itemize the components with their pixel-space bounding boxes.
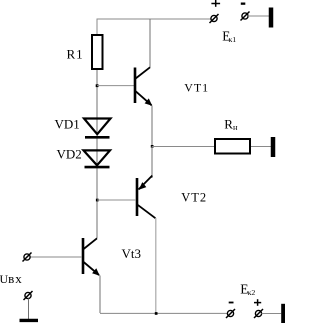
- transistor Vt3: [83, 238, 100, 276]
- wire top rail: [97, 18, 211, 20]
- svg-text:VD2: VD2: [57, 147, 82, 162]
- label minus Ek2: [229, 302, 234, 304]
- terminal input bottom: [24, 291, 33, 300]
- label plus Ek1: [211, 0, 220, 7]
- svg-text:VD1: VD1: [55, 117, 80, 132]
- wire VT2 base: [97, 199, 136, 201]
- wire Rn right: [251, 146, 271, 148]
- wire emitter VT2 vertical: [151, 146, 153, 178]
- svg-text:к1: к1: [229, 35, 237, 44]
- wire R1 top drop: [96, 19, 98, 35]
- wire VT2 collector vertical: [155, 218, 157, 313]
- svg-text:к2: к2: [248, 288, 256, 297]
- wire VT1 base: [97, 85, 134, 87]
- wire Vt3 base: [30, 256, 82, 258]
- wire Vt3 emitter vertical: [99, 276, 101, 314]
- label plus Ek2: [254, 299, 261, 306]
- node junction emitter/Rn: [151, 145, 154, 148]
- wire Ek1 to chassis: [248, 15, 269, 17]
- svg-text:Vt3: Vt3: [122, 246, 142, 261]
- wire Ek2 to chassis: [262, 313, 282, 315]
- resistor Rn: [215, 139, 250, 154]
- svg-text:R1: R1: [67, 47, 84, 62]
- diode VD1: [84, 119, 111, 138]
- transistor VT1: [135, 67, 152, 106]
- node junction VT2 collector/bottom rail: [155, 312, 158, 315]
- wire VT1 collector vertical: [149, 19, 151, 68]
- terminal Ek2 plus: [254, 309, 263, 318]
- svg-text:VT2: VT2: [181, 191, 207, 205]
- diode VD2: [84, 150, 111, 167]
- resistor R1: [92, 35, 103, 69]
- wire to Rn: [152, 146, 214, 148]
- terminal Ek2 minus: [226, 309, 235, 318]
- svg-text:VT1: VT1: [184, 81, 209, 95]
- svg-text:Uвх: Uвх: [0, 271, 23, 286]
- chassis bar Rn: [271, 137, 276, 157]
- ground bar input: [20, 319, 39, 322]
- wire bottom rail: [100, 312, 228, 314]
- transistor VT2: [137, 176, 155, 219]
- label minus Ek1: [241, 3, 246, 5]
- terminal Ek1 plus: [210, 14, 219, 23]
- chassis bar Ek2: [281, 304, 285, 323]
- node junction VD2/VT2 base: [96, 199, 99, 202]
- terminal Ek1 minus: [241, 12, 250, 21]
- wire input ground: [28, 299, 30, 320]
- node junction R1/base: [96, 84, 99, 87]
- terminal input top: [23, 253, 32, 262]
- wire vertical R1 bottom through VD1/VD2 to Vt3 collector: [96, 70, 98, 238]
- wire VT1 emitter vertical: [151, 106, 153, 147]
- chassis bar Ek1: [269, 8, 274, 28]
